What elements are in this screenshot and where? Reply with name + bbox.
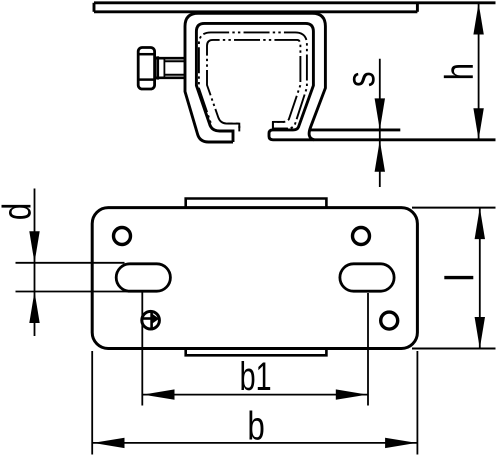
l extension bottom (412, 348, 496, 350)
clamp outer contour (185, 13, 325, 142)
bolt thread line top (164, 60, 186, 62)
b1 extension left (141, 292, 143, 406)
dimension l line (479, 208, 481, 349)
label l (444, 276, 473, 279)
bolt washer edge (156, 56, 159, 79)
phantom C-rail inner profile (207, 40, 300, 131)
base plate top edge right segment (s extension) (309, 128, 401, 131)
beam flange top edge (also h extension line) (94, 1, 496, 4)
bolt shaft top (155, 57, 186, 60)
slot left (116, 264, 170, 291)
phantom rail lip top segments (228, 123, 240, 125)
label b (249, 411, 263, 440)
arrow s lower (points up) (375, 140, 385, 172)
bolt thread line bottom (164, 74, 186, 76)
rail tab top (186, 199, 327, 208)
phantom rail right lip end (272, 121, 274, 129)
arrow d lower (points up) (29, 292, 39, 324)
arrow h top (473, 3, 483, 35)
d extension bottom (16, 291, 147, 293)
d extension top (16, 262, 125, 264)
arrow d upper (points down) (29, 231, 39, 262)
bolt head facet line upper (139, 53, 155, 56)
hole bottom-right (381, 312, 398, 329)
dimension d line (34, 189, 36, 337)
arrow b right (385, 438, 417, 448)
b1 extension right (367, 293, 369, 406)
screw tip bottom view (142, 311, 160, 329)
label h (444, 65, 473, 78)
dimension h line (478, 3, 480, 140)
dimension b line (92, 442, 417, 444)
phantom C-rail outer profile (199, 32, 307, 128)
slot right (340, 264, 394, 291)
beam flange bottom edge (94, 10, 417, 13)
bolt shank shoulder (163, 58, 165, 78)
hole top-right (353, 228, 370, 245)
beam flange left end (93, 3, 96, 12)
bottom view base plate (92, 208, 417, 349)
bolt hex head (138, 48, 154, 90)
dimension b1 line (142, 394, 368, 396)
phantom rail left lip end (238, 123, 240, 132)
arrow b left (93, 438, 125, 448)
rail tab bottom (186, 349, 327, 356)
bolt head facet line lower (139, 78, 155, 81)
b extension right (416, 351, 418, 455)
b extension left (91, 351, 93, 455)
bolt shaft bottom (155, 77, 186, 80)
dimension s line (379, 59, 381, 187)
arrow l bottom (475, 317, 485, 349)
arrow b1 right (336, 389, 368, 399)
label d (2, 205, 31, 219)
hole top-left (114, 228, 131, 245)
arrow h bottom (473, 108, 483, 140)
arrow l top (475, 208, 485, 240)
arrow s upper (points down) (375, 98, 385, 129)
beam flange right end (416, 3, 419, 12)
clamp inner contour + base plate bottom edge (extends right as extension line) (196, 23, 495, 142)
arrow b1 left (143, 389, 175, 399)
l extension top (412, 207, 496, 209)
label s (353, 73, 375, 87)
label b1 (241, 361, 254, 390)
